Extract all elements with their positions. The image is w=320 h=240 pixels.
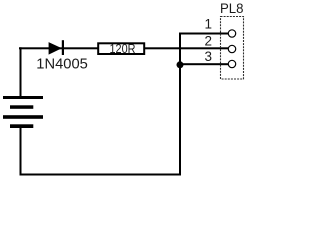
diode D1 1N4005: [49, 40, 64, 55]
battery plate short: [10, 105, 33, 109]
wire: bottom horizontal rail: [20, 174, 182, 176]
diode cathode bar: [62, 40, 64, 55]
svg-text:120R: 120R: [110, 42, 136, 56]
svg-text:PL8: PL8: [220, 0, 244, 16]
connector pin 3 circle: [228, 60, 235, 67]
wire: connector pin 1 horizontal: [179, 33, 229, 35]
wire: top horizontal from left corner through diode and resistor to connector pin 2: [19, 47, 228, 49]
svg-text:1: 1: [204, 16, 212, 31]
wire: left vertical from corner down to battery positive plate: [20, 47, 22, 96]
wire: battery negative lead down to bottom rail: [20, 127, 22, 175]
resistor R1 120R: [98, 43, 144, 54]
connector pin 1 circle: [228, 30, 235, 37]
wire: right vertical from pin1 wire down to bottom rail: [179, 33, 181, 176]
svg-text:2: 2: [204, 34, 212, 49]
svg-text:1N4005: 1N4005: [36, 56, 88, 73]
wire: connector pin 3 horizontal: [179, 63, 229, 65]
battery B1: [3, 96, 43, 128]
connector pin 2 circle: [228, 45, 235, 52]
battery plate long: [3, 115, 43, 119]
battery plate long (top, positive): [3, 96, 43, 99]
node: junction dot on pin 3 wire: [177, 61, 184, 68]
connector PL8 outline (dashed): [221, 17, 244, 80]
battery plate short (bottom, negative): [10, 124, 33, 128]
diode triangle (anode): [49, 42, 62, 55]
svg-text:3: 3: [204, 49, 212, 64]
